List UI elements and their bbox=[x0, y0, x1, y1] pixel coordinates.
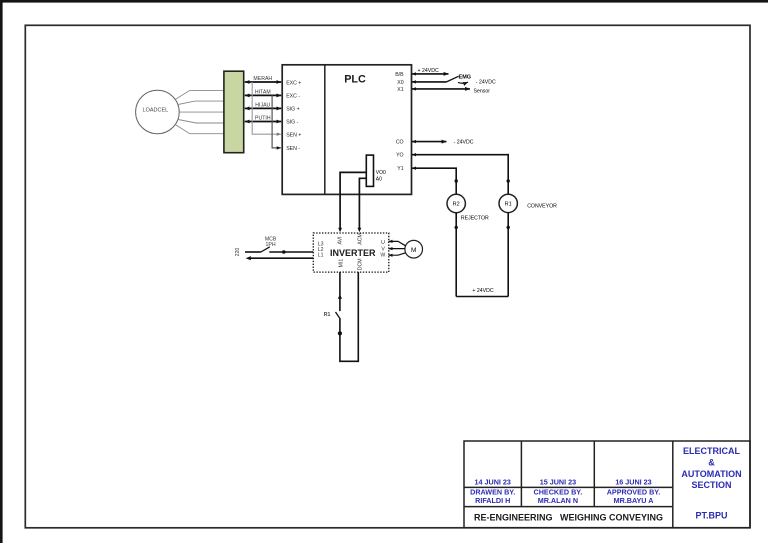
svg-text:SIG -: SIG - bbox=[286, 120, 298, 126]
svg-text:YO: YO bbox=[396, 153, 404, 159]
svg-text:+ 24VDC: + 24VDC bbox=[472, 288, 493, 294]
svg-text:PUTIH: PUTIH bbox=[255, 116, 271, 122]
svg-text:EMG: EMG bbox=[459, 74, 472, 80]
svg-text:EXC -: EXC - bbox=[286, 94, 300, 100]
svg-text:R1: R1 bbox=[324, 312, 331, 318]
svg-text:CO: CO bbox=[396, 140, 404, 146]
svg-text:&: & bbox=[708, 458, 715, 468]
svg-text:15 JUNI 23: 15 JUNI 23 bbox=[540, 478, 576, 487]
svg-text:1PH: 1PH bbox=[266, 242, 276, 248]
svg-text:SEN +: SEN + bbox=[286, 133, 301, 139]
svg-text:CONVEYOR: CONVEYOR bbox=[527, 204, 557, 210]
svg-text:EXC +: EXC + bbox=[286, 80, 301, 86]
svg-text:RIFALDI H: RIFALDI H bbox=[475, 496, 510, 505]
svg-text:AVI: AVI bbox=[337, 237, 343, 245]
svg-text:R2: R2 bbox=[453, 202, 460, 208]
svg-text:V: V bbox=[381, 246, 385, 252]
svg-text:PLC: PLC bbox=[344, 74, 366, 86]
svg-text:220: 220 bbox=[235, 248, 241, 257]
svg-text:HIJAU: HIJAU bbox=[255, 103, 270, 109]
svg-text:Y1: Y1 bbox=[397, 166, 403, 172]
svg-text:- 24VDC: - 24VDC bbox=[454, 139, 474, 145]
svg-text:L1: L1 bbox=[318, 253, 324, 259]
svg-text:DCM: DCM bbox=[358, 258, 364, 270]
svg-text:ACM: ACM bbox=[357, 233, 363, 245]
svg-text:RE-ENGINEERING WEIGHING CONV: RE-ENGINEERING WEIGHING CONVEYING bbox=[474, 512, 663, 522]
svg-text:SECTION: SECTION bbox=[691, 480, 731, 490]
svg-text:PT.BPU: PT.BPU bbox=[695, 511, 727, 521]
svg-text:LOADCEL: LOADCEL bbox=[143, 108, 169, 114]
svg-text:INVERTER: INVERTER bbox=[330, 248, 376, 258]
svg-text:R1: R1 bbox=[505, 202, 512, 208]
svg-text:VO0: VO0 bbox=[376, 170, 386, 176]
svg-text:Sensor: Sensor bbox=[474, 89, 491, 95]
svg-text:HITAM: HITAM bbox=[255, 90, 271, 96]
svg-text:W: W bbox=[380, 253, 385, 259]
svg-text:+ 24VDC: + 24VDC bbox=[418, 68, 439, 74]
svg-text:MR.BAYU A: MR.BAYU A bbox=[614, 496, 654, 505]
svg-text:SIG +: SIG + bbox=[286, 107, 299, 113]
svg-text:M: M bbox=[411, 247, 416, 254]
svg-text:MI1: MI1 bbox=[338, 259, 344, 268]
svg-text:A0: A0 bbox=[376, 176, 382, 182]
svg-text:REJECTOR: REJECTOR bbox=[461, 216, 489, 222]
svg-text:16 JUNI 23: 16 JUNI 23 bbox=[615, 478, 651, 487]
svg-text:B/B: B/B bbox=[395, 72, 404, 78]
svg-text:U: U bbox=[381, 240, 385, 246]
svg-text:X1: X1 bbox=[397, 87, 403, 93]
svg-text:14 JUNI 23: 14 JUNI 23 bbox=[475, 478, 511, 487]
svg-text:MERAH: MERAH bbox=[253, 76, 272, 82]
svg-text:AUTOMATION: AUTOMATION bbox=[681, 469, 741, 479]
svg-text:- 24VDC: - 24VDC bbox=[476, 80, 496, 86]
svg-text:ELECTRICAL: ELECTRICAL bbox=[683, 446, 740, 456]
svg-text:MR.ALAN N: MR.ALAN N bbox=[538, 496, 578, 505]
svg-text:SEN -: SEN - bbox=[286, 146, 300, 152]
svg-text:X0: X0 bbox=[397, 80, 403, 86]
